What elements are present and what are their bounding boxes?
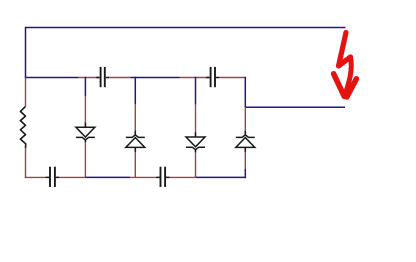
pin D2 anode lead bbox=[134, 147, 136, 152]
pin D1 anode lead bbox=[84, 96, 86, 122]
lightning bolt arrowhead left barb bbox=[334, 74, 345, 97]
lightning bolt arrowhead right barb bbox=[347, 79, 357, 97]
capacitor C3 bbox=[46, 167, 86, 187]
lightning bolt arrow zigzag bbox=[339, 33, 351, 67]
wire D3 branch vertical bbox=[195, 77, 197, 105]
wire bottom rail blue segment 1 bbox=[85, 176, 130, 178]
pin D1 cathode lead bbox=[84, 139, 86, 142]
pin D4 cathode lead bbox=[244, 107, 246, 131]
diode D3 bbox=[186, 137, 205, 150]
pin L1 bottom lead bbox=[25, 148, 27, 178]
wire bottom rail left red segment bbox=[25, 176, 46, 178]
wire right branch vertical bbox=[244, 77, 246, 108]
diode D2 bbox=[126, 135, 145, 148]
wire second rail blue segment bbox=[25, 77, 78, 79]
capacitor C4 bbox=[156, 167, 196, 187]
diode D1 bbox=[76, 127, 95, 140]
pin L1 top lead bbox=[25, 78, 27, 107]
wire D2 branch vertical bbox=[134, 77, 136, 104]
wire D1 branch vertical bbox=[84, 77, 86, 96]
wire bottom right vertical bbox=[244, 169, 246, 178]
inductor L1 bbox=[20, 106, 25, 148]
wire top rail bbox=[26, 27, 346, 29]
lightning bolt arrow shaft bbox=[345, 57, 351, 94]
pin D3 cathode lead bbox=[195, 149, 197, 153]
wire rail segment C1 to D3 branch bbox=[131, 77, 180, 79]
wire bottom rail blue segment 2 bbox=[196, 176, 246, 178]
capacitor C1 bbox=[78, 67, 131, 87]
diode D4 bbox=[236, 135, 255, 148]
wire left vertical bbox=[25, 27, 27, 78]
pin D3 anode lead bbox=[195, 104, 197, 132]
pin D2 cathode lead bbox=[134, 104, 136, 131]
pin D4 anode lead bbox=[244, 147, 246, 152]
wire bottom rail red segment 2 bbox=[130, 176, 156, 178]
capacitor C2 bbox=[180, 67, 247, 87]
wire output lead bbox=[245, 106, 345, 108]
